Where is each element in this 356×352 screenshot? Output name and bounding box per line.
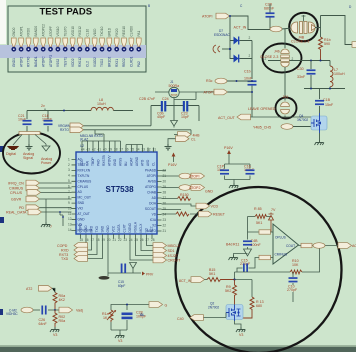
wire xyxy=(230,16,271,30)
tag RESET xyxy=(199,211,226,217)
center ground below IC xyxy=(108,239,141,277)
ground cluster2 xyxy=(115,333,124,338)
svg-text:28: 28 xyxy=(151,238,155,242)
wire from jumper to right xyxy=(315,16,352,45)
tag DSVR xyxy=(11,196,72,202)
svg-text:REG10: REG10 xyxy=(122,26,126,37)
tag right edge xyxy=(352,42,356,48)
svg-text:100uH: 100uH xyxy=(334,72,345,76)
tag VCD xyxy=(196,203,218,209)
svg-text:GND: GND xyxy=(84,225,88,233)
svg-text:22: 22 xyxy=(118,238,122,242)
svg-text:10uH: 10uH xyxy=(97,102,106,106)
ground left column xyxy=(41,222,50,227)
svg-text:33: 33 xyxy=(142,148,146,152)
capacitor C23 xyxy=(181,101,190,119)
svg-text:14: 14 xyxy=(68,228,72,232)
svg-text:COPD: COPD xyxy=(79,223,83,233)
test pad TP3 xyxy=(26,28,31,67)
IC bottom pins xyxy=(81,234,153,239)
resistor R1B xyxy=(319,37,331,61)
svg-text:PHASD: PHASD xyxy=(145,169,157,173)
svg-text:CLOSE 2-3: CLOSE 2-3 xyxy=(291,39,309,43)
svg-text:SND: SND xyxy=(101,225,105,232)
power P16V near IC xyxy=(168,153,177,168)
svg-text:RXTX0: RXTX0 xyxy=(27,56,31,67)
wires xyxy=(111,305,149,334)
resistor box minus input xyxy=(259,255,271,259)
svg-text:MC_OUT: MC_OUT xyxy=(78,196,92,200)
svg-text:SND: SND xyxy=(78,201,85,205)
diode pair D7 xyxy=(213,15,252,79)
ellipse around grounds xyxy=(3,133,60,174)
svg-text:ACT_IN: ACT_IN xyxy=(234,26,247,30)
svg-text:VIDH3C: VIDH3C xyxy=(6,312,18,316)
svg-text:ATOP2: ATOP2 xyxy=(204,91,215,95)
ground digital xyxy=(6,147,18,157)
svg-text:8CT_IN: 8CT_IN xyxy=(179,279,192,283)
capacitor C30 xyxy=(297,61,316,89)
test pad TP1 xyxy=(11,27,16,67)
svg-text:AVSS: AVSS xyxy=(148,180,156,184)
svg-text:ATOP2: ATOP2 xyxy=(19,57,23,67)
svg-text:2: 2 xyxy=(265,57,267,61)
svg-text:2: 2 xyxy=(249,36,251,40)
svg-text:GND: GND xyxy=(106,225,110,233)
svg-text:33nF: 33nF xyxy=(297,75,306,79)
svg-text:RXD: RXD xyxy=(90,225,94,232)
svg-text:LEAVE OPENED: LEAVE OPENED xyxy=(248,107,276,111)
test pad TP2 xyxy=(19,26,24,67)
svg-text:CLRT: CLRT xyxy=(123,224,127,232)
svg-text:ATOPF2: ATOPF2 xyxy=(49,55,53,67)
tag AT2 xyxy=(26,286,55,293)
svg-text:TBOP: TBOP xyxy=(91,157,95,166)
zener 7V xyxy=(269,208,276,232)
tag ACT_OUT mid xyxy=(218,114,311,120)
svg-text:P16V: P16V xyxy=(168,163,177,167)
capacitor C28 xyxy=(122,311,147,320)
svg-text:RX012: RX012 xyxy=(78,57,82,67)
svg-text:RXD12: RXD12 xyxy=(78,26,82,37)
svg-text:25: 25 xyxy=(163,207,167,211)
svg-text:AOAT: AOAT xyxy=(130,158,134,166)
svg-text:44: 44 xyxy=(81,148,85,152)
svg-text:OPLUS: OPLUS xyxy=(275,236,286,240)
svg-text:V10D: V10D xyxy=(93,28,97,37)
power P16V xyxy=(224,146,233,160)
svg-text:ATOPC2: ATOPC2 xyxy=(41,24,45,37)
tag ACT_OUT xyxy=(338,243,356,249)
svg-text:VCC: VCC xyxy=(112,225,116,232)
svg-text:9: 9 xyxy=(68,201,70,205)
op-amp U3 xyxy=(270,224,299,264)
resistor R02 xyxy=(53,310,65,327)
svg-text:270pF: 270pF xyxy=(240,262,251,266)
svg-text:2: 2 xyxy=(249,54,251,58)
test pad TP15 xyxy=(114,28,119,67)
tag SDL xyxy=(153,248,175,254)
resistor R15 xyxy=(207,268,252,297)
svg-text:7: 7 xyxy=(50,225,52,229)
svg-text:R11: R11 xyxy=(233,243,239,247)
test pad TP6 xyxy=(48,26,53,67)
svg-text:3: 3 xyxy=(68,168,70,172)
resistor R13 xyxy=(243,297,264,318)
IC left pins xyxy=(72,160,77,231)
test pad TP4 xyxy=(33,26,38,67)
ground analog power xyxy=(41,144,52,165)
svg-text:VSS10: VSS10 xyxy=(56,26,60,36)
svg-text:43: 43 xyxy=(87,148,91,152)
svg-text:CPLUS: CPLUS xyxy=(10,191,23,195)
tag Y4B5_CH5 xyxy=(253,124,311,130)
svg-text:4SJ2T: 4SJ2T xyxy=(168,254,179,258)
svg-text:AT_OUT: AT_OUT xyxy=(78,212,90,216)
svg-text:DATA: DATA xyxy=(117,224,121,233)
svg-text:10nF: 10nF xyxy=(244,77,253,81)
tag MBCLX xyxy=(153,243,180,249)
svg-text:36: 36 xyxy=(125,148,129,152)
svg-text:RXFLXN: RXFLXN xyxy=(78,168,91,172)
svg-text:CMARUS: CMARUS xyxy=(78,179,92,183)
resistor R150 xyxy=(178,193,191,201)
svg-text:13: 13 xyxy=(68,223,72,227)
svg-text:CROUT: CROUT xyxy=(168,259,182,263)
wire bus xyxy=(304,89,345,114)
svg-text:2: 2 xyxy=(68,163,70,167)
svg-text:29: 29 xyxy=(163,185,167,189)
svg-text:CHAB: CHAB xyxy=(147,191,156,195)
svg-text:DOA: DOA xyxy=(149,202,157,206)
capacitor C10 xyxy=(287,272,298,302)
svg-text:10: 10 xyxy=(68,206,72,210)
svg-text:AVD: AVD xyxy=(146,159,150,166)
svg-text:COPD: COPD xyxy=(57,244,68,248)
svg-text:REG2: REG2 xyxy=(122,58,126,67)
svg-text:1: 1 xyxy=(68,157,70,161)
capacitor C21 xyxy=(18,114,32,125)
svg-text:REAL_DATA: REAL_DATA xyxy=(6,211,27,215)
test pad TP9 xyxy=(70,26,75,67)
resistor R9 xyxy=(225,280,237,306)
left edge marks xyxy=(0,146,4,152)
capacitor C15 xyxy=(237,258,259,273)
svg-text:GND0: GND0 xyxy=(12,27,16,36)
svg-text:27: 27 xyxy=(163,196,167,200)
svg-text:Signal: Signal xyxy=(23,156,33,160)
tag Vadj xyxy=(55,307,83,313)
svg-text:V3: V3 xyxy=(118,339,122,343)
svg-text:ESDGNAC: ESDGNAC xyxy=(214,33,230,37)
wire droppers to ground xyxy=(46,199,63,226)
svg-text:COUT: COUT xyxy=(286,244,295,248)
svg-text:GSVR: GSVR xyxy=(11,198,22,202)
jumper J4C vertical in ellipse xyxy=(260,29,330,101)
svg-text:CPLUS: CPLUS xyxy=(78,185,89,189)
IC right pins xyxy=(157,171,162,232)
tag REAL_DATA xyxy=(6,209,72,215)
svg-text:2N7002: 2N7002 xyxy=(208,305,219,309)
svg-text:BU: BU xyxy=(124,161,128,166)
tag ATOPI top xyxy=(202,13,230,19)
wire xyxy=(27,110,91,112)
svg-text:15: 15 xyxy=(80,238,84,242)
white strip top-left xyxy=(0,0,6,44)
svg-text:R3c: R3c xyxy=(206,79,213,83)
tag SCLOUT xyxy=(153,253,179,259)
svg-text:Digital: Digital xyxy=(6,152,16,156)
test pad TP18 xyxy=(136,30,141,67)
svg-text:SD: SD xyxy=(145,227,149,232)
svg-text:Y4B5_CH5: Y4B5_CH5 xyxy=(253,126,271,130)
svg-text:34: 34 xyxy=(136,148,140,152)
svg-text:28: 28 xyxy=(163,190,167,194)
tag CLRD xyxy=(57,243,88,249)
svg-text:12: 12 xyxy=(68,217,72,221)
capacitor C1P xyxy=(217,165,229,175)
svg-text:BR1D: BR1D xyxy=(108,27,112,36)
svg-text:60pF: 60pF xyxy=(118,284,125,288)
svg-text:TEST PADS: TEST PADS xyxy=(40,7,93,18)
node xyxy=(63,110,65,112)
test pad TP14 xyxy=(107,27,112,67)
circle J4b top right xyxy=(289,13,318,42)
feedback wire R10 row xyxy=(235,246,320,280)
svg-text:CL: CL xyxy=(191,138,196,142)
svg-text:ATOPI: ATOPI xyxy=(189,175,199,179)
power P2RV xyxy=(142,272,154,277)
IC body xyxy=(76,152,157,234)
jumper J41 in circle xyxy=(248,95,290,117)
svg-text:4: 4 xyxy=(68,174,70,178)
resistor R10 xyxy=(290,259,302,274)
jumper J1 small circle xyxy=(155,80,214,106)
svg-text:TXD2: TXD2 xyxy=(100,59,104,67)
svg-text:21: 21 xyxy=(113,238,117,242)
tag CL xyxy=(149,302,168,308)
svg-text:AC: AC xyxy=(78,158,83,162)
IC top pins xyxy=(82,148,154,153)
svg-text:C40: C40 xyxy=(177,317,184,321)
resistor R2a xyxy=(53,293,65,311)
svg-text:32: 32 xyxy=(147,148,151,152)
svg-text:AGND: AGND xyxy=(135,156,139,166)
tag PD xyxy=(19,205,72,211)
svg-text:35: 35 xyxy=(131,148,135,152)
svg-text:MBCLX: MBCLX xyxy=(168,244,181,248)
svg-text:V3: V3 xyxy=(53,333,57,337)
capacitor C24 xyxy=(139,97,169,119)
svg-text:CL2: CL2 xyxy=(86,61,90,67)
svg-text:GND: GND xyxy=(205,190,213,194)
svg-text:680nF: 680nF xyxy=(264,6,275,10)
svg-text:GND: GND xyxy=(113,158,117,166)
svg-text:R150: R150 xyxy=(180,193,189,197)
svg-text:C30: C30 xyxy=(297,67,304,71)
tag IFRQ_CN xyxy=(8,180,72,186)
svg-text:CLRD1: CLRD1 xyxy=(130,56,134,67)
svg-text:AD: AD xyxy=(152,196,157,200)
tag VRGWNB xyxy=(58,123,84,129)
svg-text:RXTO: RXTO xyxy=(60,128,69,132)
svg-text:ICIA: ICIA xyxy=(150,218,157,222)
svg-text:BR1D2: BR1D2 xyxy=(108,56,112,67)
svg-text:ATOPI: ATOPI xyxy=(202,15,212,19)
svg-text:IFRQ_CN: IFRQ_CN xyxy=(8,182,24,186)
oval ACT_IN xyxy=(270,26,292,32)
svg-text:J41: J41 xyxy=(283,95,289,99)
svg-text:20: 20 xyxy=(163,179,167,183)
svg-text:TEST0: TEST0 xyxy=(64,26,68,36)
svg-text:17: 17 xyxy=(91,238,95,242)
tag CPLUS xyxy=(10,190,72,196)
svg-text:TXD10: TXD10 xyxy=(100,26,104,36)
svg-text:4K2: 4K2 xyxy=(59,298,65,302)
svg-text:ATO: ATO xyxy=(141,159,145,166)
test pad TP13 xyxy=(100,26,105,67)
svg-text:V3: V3 xyxy=(239,333,243,337)
svg-text:TEST: TEST xyxy=(78,163,86,167)
jumper J4B horizontal xyxy=(291,15,316,43)
net tie bar xyxy=(19,132,40,135)
test pad TP10 xyxy=(78,26,83,67)
wire xyxy=(27,111,48,132)
svg-text:R0a: R0a xyxy=(59,319,66,323)
svg-text:23: 23 xyxy=(163,218,167,222)
wire xyxy=(113,106,199,126)
resistor R16 xyxy=(176,212,189,216)
oval output xyxy=(313,243,325,249)
test pad TP17 xyxy=(129,26,134,67)
svg-text:RESET: RESET xyxy=(213,213,226,217)
tag ATOP2 GND right xyxy=(179,185,213,194)
capacitor C1B xyxy=(315,98,334,107)
inductor L8 xyxy=(91,98,113,111)
ground opamp xyxy=(229,255,238,260)
svg-text:RXD: RXD xyxy=(61,249,69,253)
tag RXTO xyxy=(60,127,84,133)
svg-text:38: 38 xyxy=(114,148,118,152)
svg-text:ATOPF: ATOPF xyxy=(49,26,53,36)
svg-text:VDD2: VDD2 xyxy=(71,58,75,67)
svg-text:BAND1: BAND1 xyxy=(34,56,38,67)
svg-text:ST7538: ST7538 xyxy=(106,185,135,194)
svg-text:16: 16 xyxy=(85,238,89,242)
capacitor C26 xyxy=(39,306,56,327)
tag RXTX xyxy=(59,252,88,258)
svg-text:Vadj: Vadj xyxy=(76,309,83,313)
test pad TP8 xyxy=(63,26,68,67)
svg-text:CL10: CL10 xyxy=(86,29,90,37)
wire fanout xyxy=(13,135,46,146)
transistor Q4 xyxy=(297,113,327,140)
svg-text:C2B 47nF: C2B 47nF xyxy=(139,97,156,101)
svg-text:CLOSE 2-3: CLOSE 2-3 xyxy=(260,55,278,59)
bus wires above IC xyxy=(84,126,192,135)
svg-text:VIO: VIO xyxy=(78,207,84,211)
svg-text:RX21: RX21 xyxy=(115,59,119,67)
svg-text:2: 2 xyxy=(292,57,294,61)
svg-text:26: 26 xyxy=(163,201,167,205)
svg-text:37: 37 xyxy=(120,148,124,152)
svg-text:26: 26 xyxy=(140,238,144,242)
svg-text:GL: GL xyxy=(140,313,144,317)
ground small xyxy=(165,144,172,150)
svg-text:VCD: VCD xyxy=(211,205,219,209)
svg-text:SCT: SCT xyxy=(150,226,154,232)
tag CA0 xyxy=(177,313,226,322)
svg-text:39: 39 xyxy=(109,148,113,152)
svg-text:C24: C24 xyxy=(162,97,169,101)
svg-text:15nF: 15nF xyxy=(325,103,334,107)
test pads box xyxy=(8,6,146,72)
svg-text:10K: 10K xyxy=(292,263,299,267)
svg-text:270pF: 270pF xyxy=(287,288,298,292)
svg-text:(K.AZ: (K.AZ xyxy=(80,138,88,142)
svg-text:C1B: C1B xyxy=(323,98,331,102)
svg-text:1K: 1K xyxy=(103,316,108,320)
pad highlight band xyxy=(0,45,146,58)
svg-text:CLRD0: CLRD0 xyxy=(130,26,134,37)
svg-text:25: 25 xyxy=(135,238,139,242)
svg-text:19: 19 xyxy=(102,238,106,242)
svg-text:590: 590 xyxy=(324,42,330,46)
svg-text:10pF: 10pF xyxy=(181,115,190,119)
tag TXD xyxy=(61,256,88,262)
svg-text:MCLX: MCLX xyxy=(139,223,143,233)
svg-text:BAND0: BAND0 xyxy=(34,26,38,37)
ground right column xyxy=(315,140,324,145)
capacitor C1b xyxy=(244,70,257,118)
svg-text:RX20: RX20 xyxy=(115,28,119,36)
svg-text:PAO: PAO xyxy=(97,159,101,166)
tag CL2 xyxy=(168,136,196,144)
svg-text:RXSTB: RXSTB xyxy=(102,155,106,166)
svg-text:J4b: J4b xyxy=(274,50,280,54)
svg-text:23: 23 xyxy=(124,238,128,242)
svg-text:ATOPC: ATOPC xyxy=(41,56,45,67)
svg-text:ATOP2: ATOP2 xyxy=(189,186,200,190)
svg-text:RSSLA: RSSLA xyxy=(134,221,138,232)
test pad TP5 xyxy=(41,24,46,67)
tag VIDH3C xyxy=(6,307,40,316)
resistor R85 xyxy=(248,207,272,225)
svg-text:V10D2: V10D2 xyxy=(93,57,97,67)
svg-text:ATOPG: ATOPG xyxy=(145,185,156,189)
svg-text:R 85: R 85 xyxy=(254,207,262,211)
output row xyxy=(299,245,339,247)
capacitor C2B xyxy=(264,3,275,30)
svg-text:RXD0: RXD0 xyxy=(27,28,31,37)
svg-text:VDD10: VDD10 xyxy=(71,26,75,37)
svg-text:VD: VD xyxy=(152,213,157,217)
ellipse J4c xyxy=(263,44,302,73)
svg-text:64nF: 64nF xyxy=(39,322,48,326)
svg-text:3N7002: 3N7002 xyxy=(297,118,308,122)
svg-text:TXFLTN: TXFLTN xyxy=(78,174,91,178)
bottom dark band xyxy=(0,347,356,352)
capacitor C1S xyxy=(118,264,126,289)
test pad TP7 xyxy=(56,26,61,67)
ground arrow mid xyxy=(171,121,178,128)
svg-text:CL: CL xyxy=(152,162,156,166)
tag CIMRUS xyxy=(9,185,72,191)
test pad TP16 xyxy=(122,26,127,67)
tag ATOPI right xyxy=(179,173,205,179)
svg-text:C1b: C1b xyxy=(244,70,251,74)
capacitor C18 xyxy=(42,114,53,125)
